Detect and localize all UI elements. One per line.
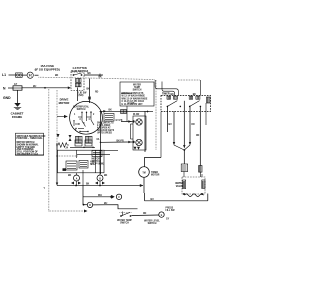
svg-text:MOTOR: MOTOR (151, 175, 160, 177)
svg-text:SWITCH: SWITCH (120, 223, 129, 225)
svg-text:6A: 6A (97, 138, 100, 141)
svg-text:BK: BK (68, 175, 72, 177)
svg-text:POSITION – TIMER DIAL: POSITION – TIMER DIAL (17, 137, 44, 140)
svg-text:SWITCH: SWITCH (77, 109, 86, 111)
svg-text:SWITCH CONTACTS: SWITCH CONTACTS (122, 92, 144, 95)
svg-text:WATER TEMP: WATER TEMP (117, 219, 132, 222)
svg-text:GY: GY (166, 219, 170, 221)
svg-text:RD: RD (196, 135, 200, 137)
svg-text:OR: OR (191, 124, 195, 126)
svg-text:WATER LEVEL: WATER LEVEL (144, 220, 160, 223)
svg-text:(IF SO EQUIPPED): (IF SO EQUIPPED) (35, 67, 60, 71)
svg-text:TM: TM (142, 173, 145, 175)
svg-text:GY-PK: GY-PK (116, 120, 123, 122)
svg-text:FILL SW: FILL SW (166, 210, 176, 212)
svg-text:SW CONTACTS: SW CONTACTS (97, 121, 114, 124)
svg-text:SWITCH: SWITCH (148, 223, 157, 225)
svg-text:BK: BK (88, 73, 92, 75)
svg-text:THE WASHER CYCLE: THE WASHER CYCLE (17, 153, 39, 156)
svg-text:BK-PR: BK-PR (117, 140, 124, 142)
svg-text:BU: BU (169, 124, 173, 126)
svg-text:WW 13-14 WARM RINSE: WW 13-14 WARM RINSE (122, 97, 148, 100)
svg-text:(SAW SWITCH): (SAW SWITCH) (71, 70, 89, 73)
svg-text:L1: L1 (2, 73, 6, 77)
svg-text:MOTOR: MOTOR (59, 101, 71, 105)
svg-text:W 13-14 WASH-RINSE: W 13-14 WASH-RINSE (122, 95, 146, 98)
svg-text:BU: BU (151, 199, 155, 201)
svg-text:GND: GND (3, 96, 11, 100)
svg-text:(TOP VIEW): (TOP VIEW) (92, 164, 105, 166)
svg-text:WH: WH (98, 195, 102, 197)
svg-text:BK: BK (55, 75, 59, 77)
svg-text:NO LOAD GETS: NO LOAD GETS (97, 129, 115, 132)
svg-text:C 13-15 GY-PK COLD: C 13-15 GY-PK COLD (122, 101, 145, 103)
svg-text:UP TO SPEED: UP TO SPEED (97, 133, 112, 135)
svg-text:BU: BU (104, 203, 108, 205)
svg-text:W-OR: W-OR (133, 114, 140, 116)
svg-text:GY: GY (14, 84, 18, 86)
svg-text:BK: BK (109, 110, 113, 112)
svg-text:LID SW: LID SW (79, 93, 88, 95)
svg-text:H 14-16 BK-PR HOT: H 14-16 BK-PR HOT (122, 103, 144, 106)
svg-text:BK: BK (171, 94, 175, 96)
svg-text:RD: RD (95, 92, 99, 94)
svg-text:SWITCH: SWITCH (133, 90, 142, 92)
svg-text:TIMER: TIMER (162, 93, 170, 96)
svg-text:4-5 OPEN AT: 4-5 OPEN AT (97, 127, 111, 130)
svg-text:BU: BU (33, 86, 37, 88)
svg-text:BK: BK (193, 94, 197, 96)
svg-text:RD: RD (143, 213, 147, 215)
svg-text:(NO): (NO) (79, 95, 84, 97)
svg-text:BK: BK (86, 184, 90, 186)
svg-text:BK: BK (104, 175, 108, 177)
svg-text:FRAME: FRAME (12, 115, 22, 119)
